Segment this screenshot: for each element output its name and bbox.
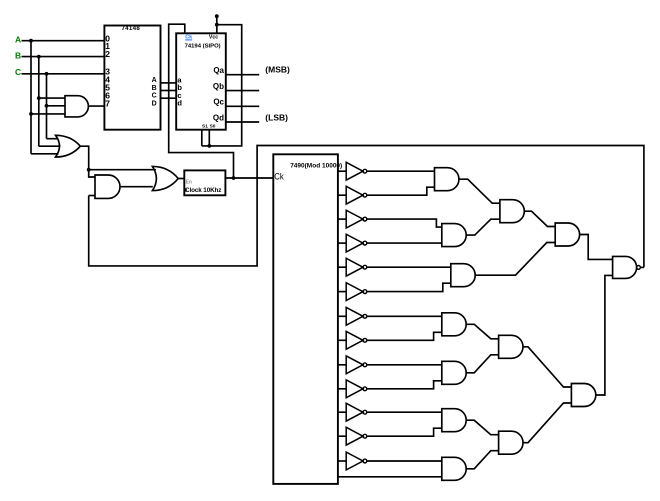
svg-text:C: C <box>15 67 21 77</box>
wire clock output to 7490 Ck <box>225 177 273 179</box>
wire U6 output to clock En <box>178 178 184 180</box>
wire U20a to NAND top <box>580 235 613 260</box>
node clock output branch <box>232 176 236 180</box>
wire N5 to U13 top <box>367 266 451 268</box>
wire U13 to U20a bottom <box>475 243 555 276</box>
or-gate U4 3-input <box>56 135 81 157</box>
wire C to 74148 pin3 <box>22 73 105 75</box>
wire 7490 output 11 to N11 <box>338 411 346 413</box>
svg-text:B: B <box>15 50 21 60</box>
svg-text:A: A <box>15 34 21 44</box>
wire clock to 74194 Ck <box>169 24 234 178</box>
counter 7490 box <box>273 154 338 484</box>
wire Vcc stub <box>216 16 218 33</box>
wire U12 to U18 bottom <box>466 219 500 235</box>
svg-text:(MSB): (MSB) <box>265 65 290 75</box>
svg-text:D: D <box>152 100 157 107</box>
nand-gate U20 <box>613 256 641 278</box>
wire N3 to U12 top <box>367 219 442 227</box>
wire 7490 output 6 to N6 <box>338 291 346 293</box>
svg-text:74148: 74148 <box>121 25 140 32</box>
wire 7490 output 10 to N10 <box>338 388 346 390</box>
wire U17 to U19b bottom <box>466 451 498 469</box>
node Vcc branch <box>215 23 219 27</box>
svg-text:B: B <box>152 85 157 92</box>
wire 7490 output 7 to N7 <box>338 315 346 317</box>
wire U18 to U20a top <box>524 211 555 226</box>
shift register 74194 box <box>176 33 226 129</box>
inverter N13 <box>346 452 367 470</box>
svg-text:En: En <box>186 180 192 186</box>
svg-text:Qc: Qc <box>213 98 224 107</box>
inverter N6 <box>346 283 367 301</box>
and-gate U18 <box>500 200 524 223</box>
encoder 74148 box <box>104 26 160 130</box>
and-gate U13 <box>451 264 475 287</box>
wire B to 74148 pin2 <box>22 56 105 58</box>
and-gate U16 <box>442 409 466 432</box>
wire B to U3 top input <box>39 97 65 99</box>
inverter N1 <box>346 162 367 180</box>
and-gate U20a <box>555 223 579 246</box>
wire 7490 output 4 to N4 <box>338 242 346 244</box>
wire N4 to U12 bottom <box>367 242 442 244</box>
wire 7490 output 3 to N3 <box>338 218 346 220</box>
svg-text:(LSB): (LSB) <box>265 112 288 122</box>
wire U11 to U18 top <box>459 179 500 203</box>
wire 74148 B to 74194 b <box>161 90 177 92</box>
wire Vcc to S1 S0 <box>202 25 242 146</box>
wire 7490 output 12 to N12 <box>338 435 346 437</box>
wire 7490 output 8 to N8 <box>338 339 346 341</box>
wire A to U4 bottom input <box>31 153 59 155</box>
wire N8 to U14 bottom <box>367 332 442 340</box>
wire A vertical <box>30 41 32 154</box>
svg-text:Vcc: Vcc <box>209 34 218 40</box>
wire 74148 C to 74194 c <box>161 97 177 99</box>
wire U15 to U19 bottom <box>466 355 498 373</box>
node A branch to U3 <box>29 112 33 116</box>
inverter N2 <box>346 186 367 204</box>
inverter N7 <box>346 307 367 325</box>
svg-text:Qa: Qa <box>213 66 224 75</box>
and-gate U19 <box>499 335 523 358</box>
wire N1 to U11 top <box>367 170 435 172</box>
wire U4 output <box>80 146 88 170</box>
and-gate U12 <box>442 224 466 247</box>
inverter N10 <box>346 380 367 398</box>
inverter N4 <box>346 234 367 252</box>
svg-text:2: 2 <box>105 49 110 59</box>
node Vcc top <box>215 14 219 18</box>
wire A to U3 bottom input <box>31 113 65 115</box>
inverter N5 <box>346 258 367 276</box>
node A junction <box>29 39 33 43</box>
wire Qa output <box>226 74 259 76</box>
and-gate U5 <box>95 175 120 198</box>
wire N6 to U13 bottom <box>367 283 451 291</box>
and-gate U20b <box>571 384 595 407</box>
svg-text:S0: S0 <box>210 123 216 129</box>
wire N11 to U16 top <box>367 411 442 413</box>
and-gate U19b <box>499 431 523 454</box>
wire 7490 output 5 to N5 <box>338 266 346 268</box>
svg-text:7: 7 <box>105 99 110 109</box>
inverter N12 <box>346 427 367 445</box>
wire U3 output to 74148 pin7 <box>88 105 104 107</box>
wire U16 to U19b top <box>466 420 498 435</box>
wire to U5 top input <box>89 170 95 177</box>
node S0 junction <box>207 144 211 148</box>
wire feedback to U5 bottom input <box>89 195 95 197</box>
svg-text:d: d <box>177 99 182 108</box>
wire U4 branch to U6 top input <box>89 169 156 171</box>
wire S1 stub <box>201 130 203 146</box>
wire C to U4 top input <box>47 138 59 140</box>
inverter N3 <box>346 210 367 228</box>
wire N13 to U17 top <box>367 460 442 462</box>
or-gate U6 <box>152 166 178 190</box>
wire Qc output <box>226 105 259 107</box>
wire U19 to U20b top <box>523 347 571 387</box>
wire B to U4 middle input <box>39 145 61 147</box>
clock generator CLK1 box <box>184 170 225 195</box>
node B junction <box>37 55 41 59</box>
wire U20b to NAND bottom <box>596 275 613 395</box>
wire C vertical <box>46 74 48 139</box>
wire N10 to U15 bottom <box>367 381 442 389</box>
wire feedback from U20 output <box>89 146 644 268</box>
svg-text:Ck: Ck <box>274 172 284 183</box>
svg-text:74194 (SIPO): 74194 (SIPO) <box>185 43 221 49</box>
wire Qd output <box>226 121 259 123</box>
and-gate U17 <box>442 457 466 480</box>
wire 7490 output 13 to N13 <box>338 460 346 462</box>
wire 7490 output 1 to N1 <box>338 170 346 172</box>
svg-text:S1: S1 <box>202 123 208 129</box>
wire A to 74148 pin0 <box>22 40 105 42</box>
wire 7490 output 2 to N2 <box>338 194 346 196</box>
inverter N11 <box>346 403 367 421</box>
node C junction <box>45 72 49 76</box>
node U4 output branch <box>87 168 91 172</box>
wire 74148 A to 74194 a <box>161 82 177 84</box>
wire NAND output <box>640 266 644 268</box>
wire N7 to U14 top <box>367 315 442 317</box>
inverter N8 <box>346 331 367 349</box>
svg-text:C: C <box>152 93 157 100</box>
and-gate U14 <box>442 313 466 336</box>
wire B vertical <box>38 57 40 147</box>
wire N2 to U11 bottom <box>367 187 435 195</box>
svg-text:Qd: Qd <box>213 113 224 122</box>
and-gate U11 <box>435 168 459 191</box>
wire 7490 output 14 to U10 input <box>338 476 442 478</box>
label Ck blue <box>185 35 193 41</box>
wire S0 stub <box>208 130 210 146</box>
clock input marker <box>184 187 187 192</box>
node C branch to U3 <box>45 104 49 108</box>
svg-text:A: A <box>152 77 157 84</box>
wire U5 output to U6 <box>120 186 153 188</box>
wire C to U3 middle input <box>47 105 66 107</box>
wire Qb output <box>226 90 259 92</box>
svg-text:7490(Mod 10000): 7490(Mod 10000) <box>290 162 342 169</box>
wire N9 to U15 top <box>367 364 442 366</box>
wire U14 to U19 top <box>466 324 498 339</box>
svg-text:Clock 10Khz: Clock 10Khz <box>185 187 221 194</box>
wire U19b to U20b bottom <box>523 403 571 443</box>
svg-text:Qb: Qb <box>213 82 224 91</box>
inverter N9 <box>346 356 367 374</box>
node B branch to U3 <box>37 96 41 100</box>
wire 7490 output 9 to N9 <box>338 364 346 366</box>
wire N12 to U16 bottom <box>367 428 442 436</box>
and-gate U15 <box>442 361 466 384</box>
and-gate U3 3-input <box>65 96 88 117</box>
